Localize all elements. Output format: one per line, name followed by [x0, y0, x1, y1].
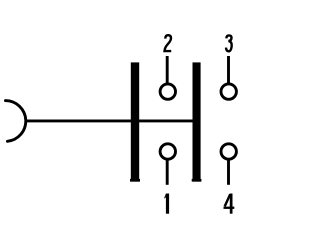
terminal circle 2 — [160, 84, 175, 99]
terminal circle 1 — [160, 144, 175, 159]
pin label 3 — [226, 35, 232, 51]
wire stub terminal 1 — [166, 159, 169, 185]
contact bridge bar right foot — [192, 179, 202, 182]
contact bridge bar left — [131, 62, 139, 181]
pin label 4 crossbar — [224, 207, 235, 209]
pin label 1 flag — [164, 194, 166, 199]
pin label 2 — [165, 35, 172, 51]
wire actuator rod — [26, 119, 201, 122]
wire stub terminal 2 — [166, 56, 169, 84]
pin label 1 stem — [166, 194, 169, 214]
wire stub terminal 4 — [227, 159, 230, 185]
terminal circle 3 — [221, 84, 236, 99]
contact bridge bar left foot — [130, 179, 140, 182]
pin label 4 diagonal — [225, 194, 231, 206]
terminal circle 4 — [221, 144, 236, 159]
wire stub terminal 3 — [227, 56, 230, 84]
contact bridge bar right — [193, 62, 201, 181]
actuator arc (pushbutton operator) — [6, 101, 26, 142]
pin label 4 stem — [230, 194, 233, 214]
